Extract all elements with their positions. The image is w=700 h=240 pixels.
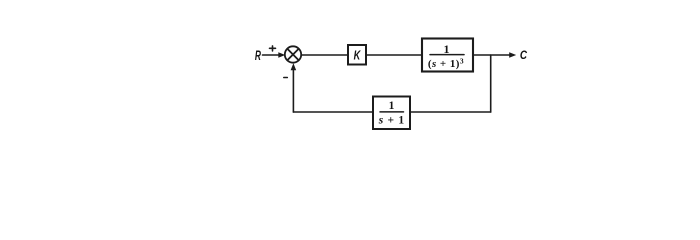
svg-text:C: C [520, 49, 527, 62]
wire block G to output C [473, 54, 510, 56]
svg-text:s + 1: s + 1 [378, 115, 405, 127]
block G 1/(s+1)^3 [422, 39, 473, 72]
svg-text:1: 1 [444, 42, 450, 56]
arrowhead into summing junction [278, 52, 285, 58]
node branch point [490, 55, 492, 112]
minus sign [284, 77, 288, 79]
plus sign [270, 46, 276, 51]
arrowhead output C [509, 52, 516, 58]
block H 1/(s+1) [373, 97, 410, 130]
wire feedback left segment [293, 111, 373, 113]
fraction bar of block G [430, 54, 464, 56]
wire feedback up to summing junction [292, 68, 294, 112]
wire feedback right segment [410, 111, 491, 113]
svg-text:(s + 1)3: (s + 1)3 [428, 56, 464, 70]
wire R to summing junction [263, 54, 280, 56]
svg-text:R: R [255, 49, 262, 64]
block K [348, 45, 366, 65]
fraction bar of block H [380, 111, 404, 113]
svg-text:1: 1 [389, 100, 395, 112]
summing junction S1 [285, 46, 301, 62]
arrowhead feedback into summing junction [291, 63, 297, 70]
wire block K to block G [366, 54, 422, 56]
wire summing junction to block K [301, 54, 348, 56]
svg-text:K: K [354, 49, 362, 63]
